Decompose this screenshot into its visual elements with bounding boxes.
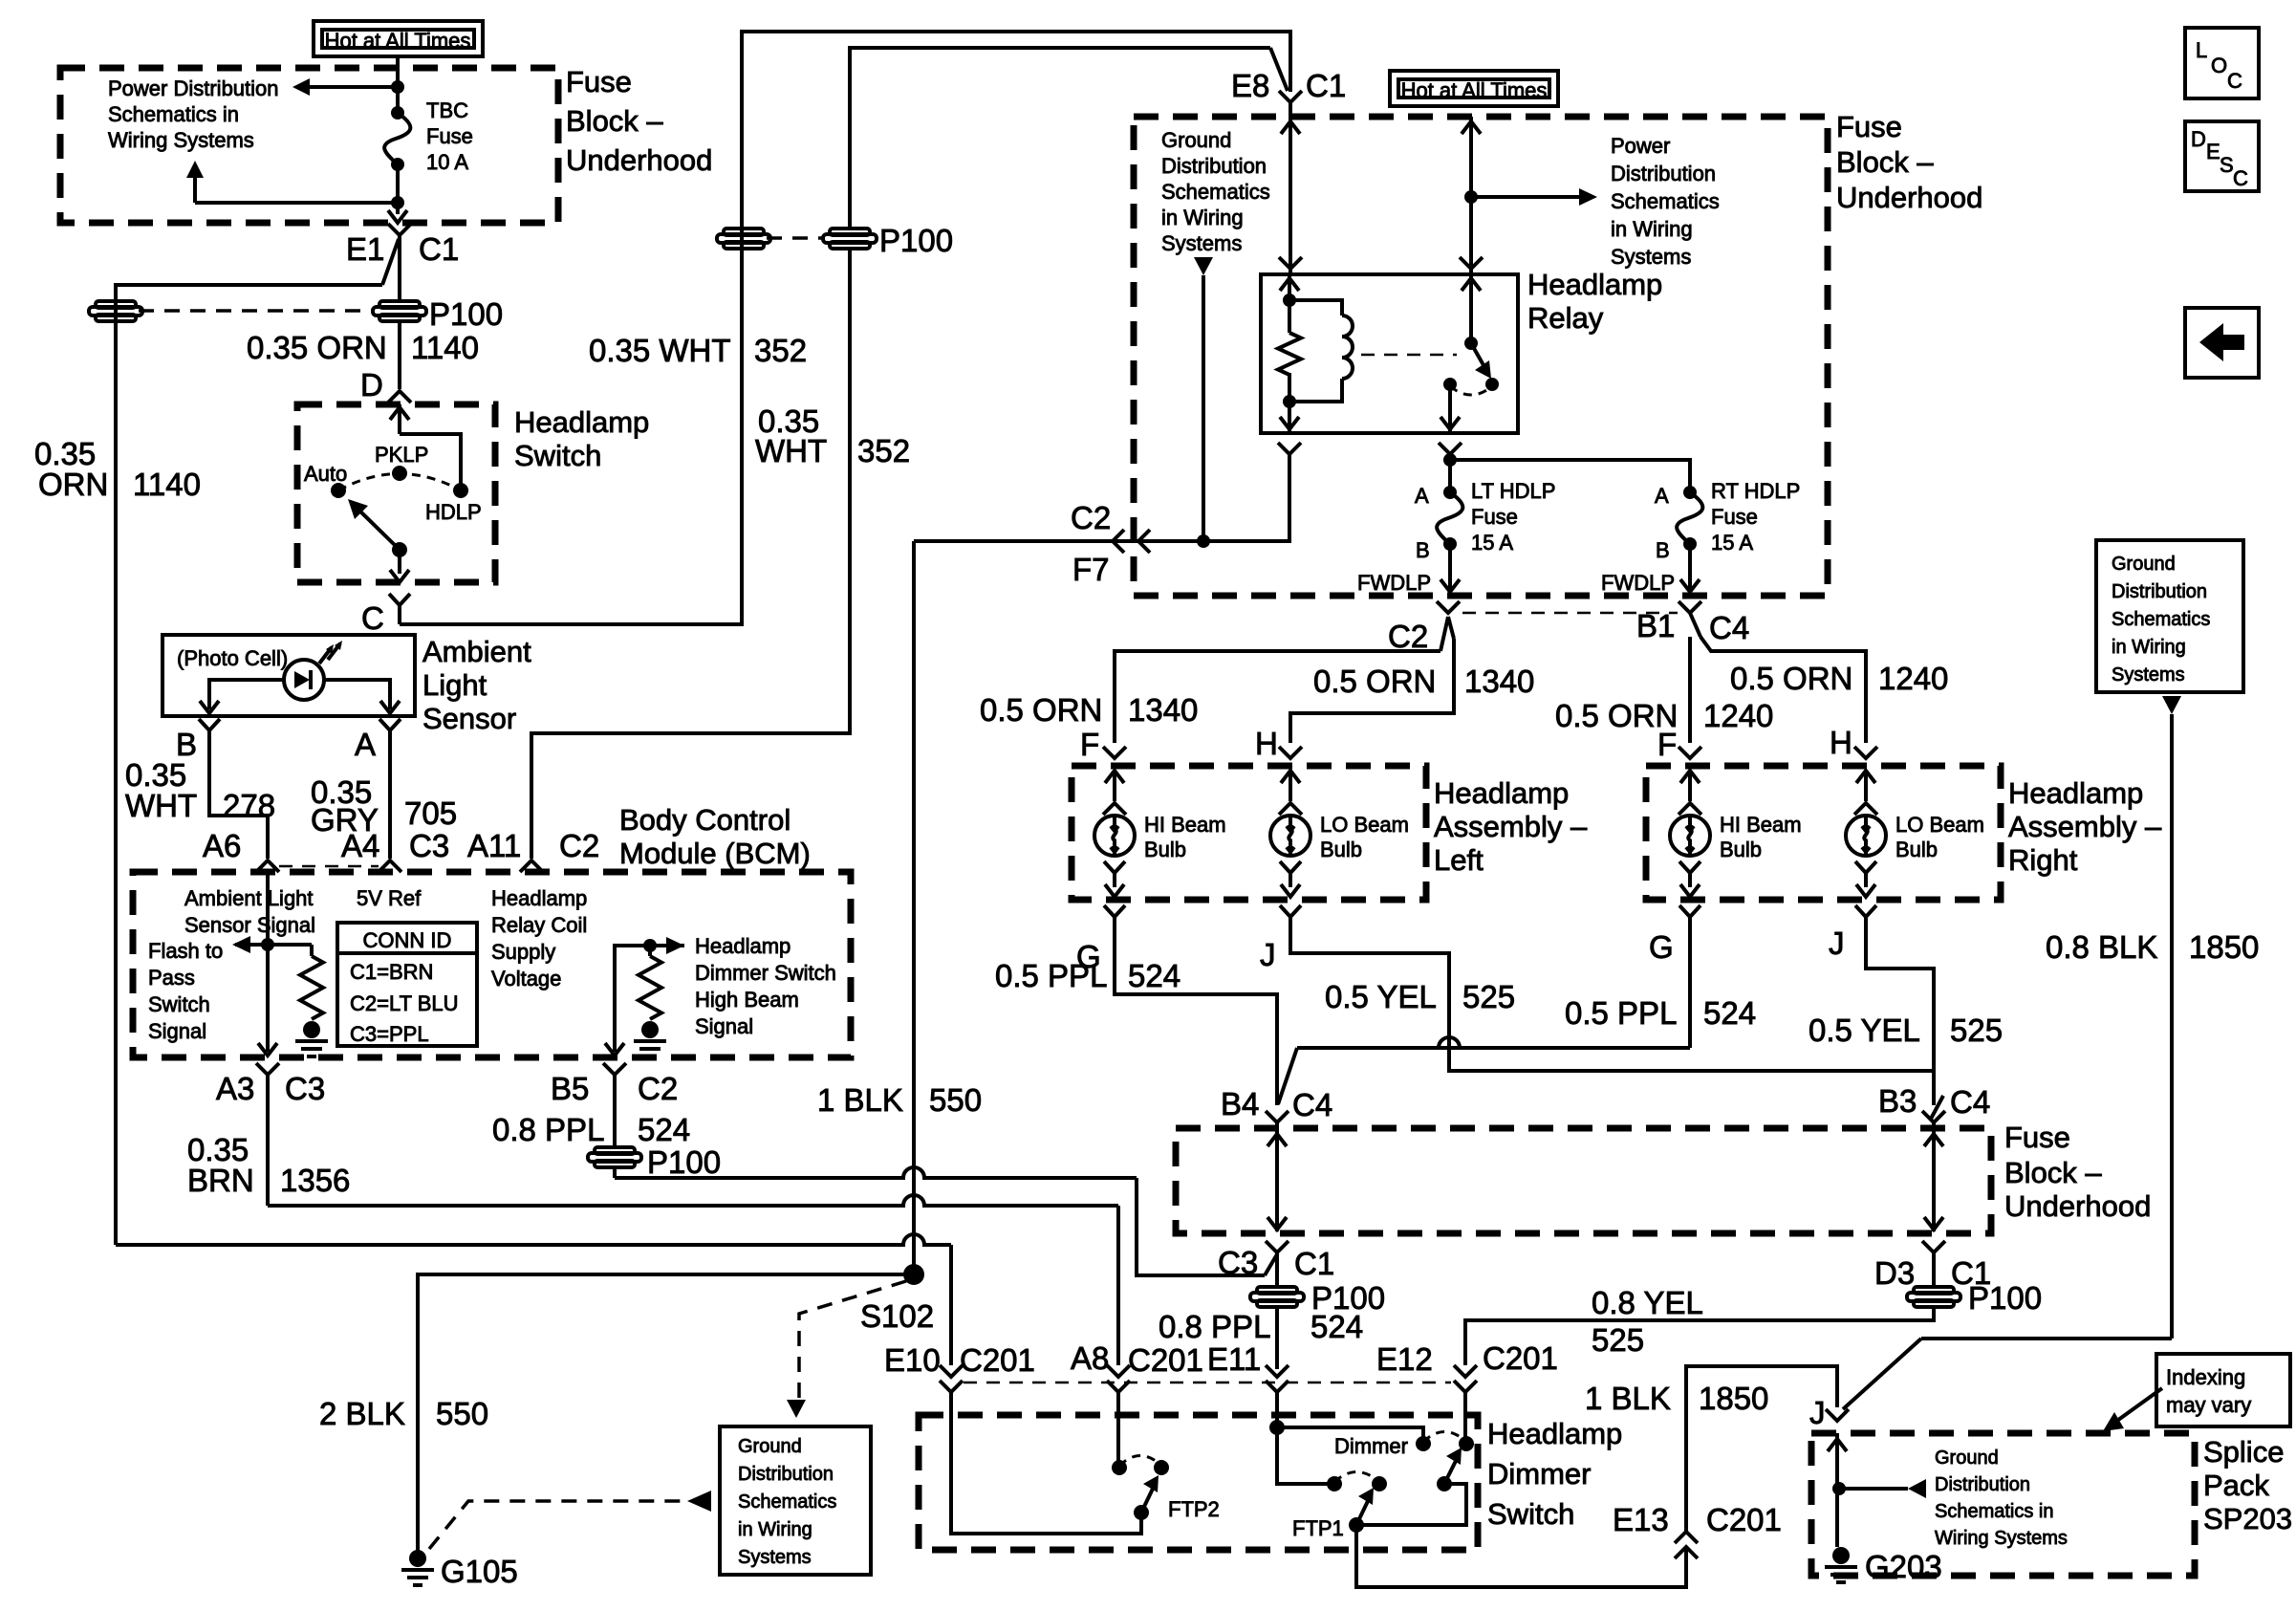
svg-text:C201: C201 <box>1483 1340 1558 1376</box>
label: Hot at All Times box 2 <box>1390 71 1558 106</box>
bulb pin bottom <box>1855 861 1876 887</box>
connector D3/C1 <box>1922 1241 1945 1252</box>
junction <box>1832 1482 1846 1495</box>
wire <box>1202 275 1205 541</box>
svg-text:Distribution: Distribution <box>738 1464 834 1485</box>
FTP1 arm <box>1349 1517 1364 1533</box>
svg-text:524: 524 <box>1703 995 1756 1031</box>
svg-text:C2: C2 <box>1071 500 1111 535</box>
pin <box>1469 274 1473 343</box>
svg-text:P100: P100 <box>879 223 953 258</box>
node: feed junction <box>1464 190 1478 204</box>
fuse block underhood (lower) dashed box <box>1176 1128 1991 1233</box>
svg-text:Bulb: Bulb <box>1144 838 1186 861</box>
svg-text:Distribution: Distribution <box>1935 1474 2030 1495</box>
wire 2BLK550 <box>418 1274 914 1551</box>
svg-text:in Wiring: in Wiring <box>1161 206 1244 229</box>
svg-text:1 BLK: 1 BLK <box>817 1082 903 1118</box>
wire <box>613 1168 617 1178</box>
connector E13/C201 <box>1675 1532 1698 1543</box>
ground G105 <box>409 1550 426 1567</box>
svg-text:Distribution: Distribution <box>1611 162 1716 185</box>
svg-text:BRN: BRN <box>187 1163 254 1198</box>
pin <box>398 404 401 434</box>
wire <box>1277 1427 1334 1484</box>
wire <box>1448 454 1452 492</box>
LO Beam Bulb <box>1846 816 1886 856</box>
wire BRN 1356 horizontal <box>268 1195 1118 1206</box>
svg-text:705: 705 <box>404 795 457 831</box>
photon arrows <box>319 643 340 664</box>
svg-text:0.5 ORN: 0.5 ORN <box>1313 664 1436 699</box>
wire <box>951 1392 1141 1534</box>
svg-text:Sensor Signal: Sensor Signal <box>184 913 315 937</box>
svg-text:Fuse: Fuse <box>1711 505 1758 529</box>
svg-text:10 A: 10 A <box>426 150 468 174</box>
connector C201 chevrons <box>1266 1365 1289 1377</box>
svg-text:352: 352 <box>857 433 910 468</box>
svg-text:C4: C4 <box>1709 610 1749 645</box>
wire <box>266 945 270 1052</box>
svg-text:525: 525 <box>1592 1322 1644 1358</box>
bulb pin LO beam top <box>1279 747 1302 758</box>
connector B1/C4 <box>1679 601 1701 613</box>
svg-text:E8: E8 <box>1231 68 1269 103</box>
splice pack dashed box <box>1811 1433 2195 1576</box>
dashed reference from G105 to note box <box>429 1501 684 1549</box>
svg-text:FWDLP: FWDLP <box>1601 571 1675 595</box>
svg-text:0.5 ORN: 0.5 ORN <box>1730 661 1852 696</box>
svg-text:Bulb: Bulb <box>1320 838 1362 861</box>
connector C3/C1 <box>1266 1241 1289 1252</box>
headlamp relay box <box>1261 274 1518 433</box>
svg-text:in Wiring: in Wiring <box>738 1519 812 1540</box>
svg-text:0.35 WHT: 0.35 WHT <box>589 333 731 368</box>
switch travel dashed arc <box>338 474 461 491</box>
svg-text:B1: B1 <box>1636 608 1675 643</box>
svg-text:Dimmer: Dimmer <box>1487 1457 1592 1491</box>
svg-text:Fuse: Fuse <box>1836 110 1902 143</box>
svg-text:Light: Light <box>422 668 487 702</box>
svg-text:Schematics: Schematics <box>738 1491 836 1513</box>
svg-text:C: C <box>2233 166 2248 190</box>
connector E1/C1 <box>388 224 411 235</box>
contact PKLP <box>392 466 407 481</box>
svg-text:J: J <box>1260 937 1276 972</box>
connector C2 (left headlamp feed) <box>1437 601 1460 613</box>
wire feed <box>396 56 400 113</box>
wire ORN down to E10 <box>949 1245 953 1365</box>
relay contact (NC side) <box>1485 378 1499 391</box>
connector C <box>389 594 410 624</box>
svg-text:Fuse: Fuse <box>426 124 473 148</box>
svg-text:C3: C3 <box>409 828 449 863</box>
svg-text:Right: Right <box>2008 843 2078 877</box>
svg-text:B: B <box>1416 538 1430 562</box>
svg-text:1340: 1340 <box>1128 692 1198 728</box>
reference triangle at note box <box>687 1491 711 1512</box>
DESC box <box>2185 121 2259 191</box>
switch common pivot <box>392 542 407 557</box>
svg-text:Splice: Splice <box>2203 1435 2284 1469</box>
svg-text:C3=PPL: C3=PPL <box>350 1022 429 1046</box>
svg-text:SP203: SP203 <box>2203 1502 2292 1535</box>
svg-text:Headlamp: Headlamp <box>491 886 587 910</box>
svg-text:Systems: Systems <box>2112 664 2185 686</box>
ground distribution note box (bottom middle-left) <box>720 1426 871 1575</box>
svg-text:C2: C2 <box>1388 619 1428 654</box>
svg-text:15 A: 15 A <box>1471 531 1513 555</box>
svg-text:LO Beam: LO Beam <box>1320 813 1409 837</box>
svg-text:H: H <box>1255 726 1278 761</box>
bulb pin bottom <box>1280 861 1301 887</box>
E11 junction <box>1269 1420 1285 1435</box>
svg-text:Distribution: Distribution <box>1161 154 1267 178</box>
svg-text:D3: D3 <box>1874 1255 1915 1291</box>
svg-text:1140: 1140 <box>411 330 479 365</box>
wire 0.5 ORN 1340 to left HI beam (F) <box>1440 617 1448 651</box>
thin dashed connector line C201 <box>964 1382 1451 1384</box>
svg-text:RT HDLP: RT HDLP <box>1711 479 1800 503</box>
headlamp switch dashed box <box>297 404 495 582</box>
fuse TBC 10A <box>391 106 404 120</box>
fuse RT HDLP 15A <box>1683 486 1697 499</box>
pin <box>1288 274 1291 300</box>
fuse block underhood (top right) dashed box <box>1134 117 1828 596</box>
dashed link <box>767 236 823 240</box>
svg-text:H: H <box>1830 725 1852 760</box>
relay coil ground return to F7/C2 <box>1278 443 1301 454</box>
bulb pin bottom <box>1679 861 1700 887</box>
stub <box>310 945 314 956</box>
pin <box>1113 771 1116 801</box>
pin <box>1289 771 1292 801</box>
svg-text:F: F <box>1080 727 1099 762</box>
svg-text:D: D <box>360 367 383 403</box>
svg-text:278: 278 <box>223 788 275 823</box>
svg-text:Schematics in: Schematics in <box>108 102 239 126</box>
dashed link between P100 grommets <box>139 309 375 313</box>
wire coil gnd <box>914 454 1289 541</box>
svg-text:P100: P100 <box>1968 1280 2042 1316</box>
svg-text:PKLP: PKLP <box>375 443 428 467</box>
junction <box>261 938 274 951</box>
wire ORN 1140 horizontal <box>116 1234 951 1245</box>
wire to power distribution arrow <box>309 85 398 89</box>
svg-text:C4: C4 <box>1950 1084 1990 1120</box>
wire WHT 352 b <box>531 250 850 859</box>
connector A4/C3 <box>379 860 401 872</box>
Indexing may vary box <box>2156 1354 2290 1426</box>
svg-text:Systems: Systems <box>738 1547 812 1568</box>
arrow line <box>235 943 312 947</box>
svg-text:Wiring Systems: Wiring Systems <box>108 128 254 152</box>
svg-text:0.5 ORN: 0.5 ORN <box>980 692 1102 728</box>
bulb pin LO beam top <box>1854 747 1877 758</box>
wire to up arrow <box>195 201 398 205</box>
svg-text:FTP2: FTP2 <box>1168 1497 1220 1521</box>
svg-text:C4: C4 <box>1292 1087 1332 1122</box>
svg-text:C3: C3 <box>285 1071 325 1106</box>
coil top <box>1289 300 1342 316</box>
P100 grommet (left) <box>96 301 136 308</box>
reference arrow up <box>186 161 204 178</box>
wire PPL 524 horizontal <box>615 1167 1137 1178</box>
thin dashed connector line A6-A4 <box>279 865 379 868</box>
svg-text:A6: A6 <box>203 828 241 863</box>
svg-text:1 BLK: 1 BLK <box>1585 1381 1671 1416</box>
svg-text:C2: C2 <box>559 828 599 863</box>
svg-text:P100: P100 <box>429 296 503 332</box>
svg-text:Ambient: Ambient <box>422 635 531 668</box>
svg-text:0.35 ORN: 0.35 ORN <box>247 330 387 365</box>
svg-text:Systems: Systems <box>1161 231 1242 255</box>
svg-text:Ambient Light: Ambient Light <box>184 886 314 910</box>
svg-text:550: 550 <box>436 1396 488 1431</box>
svg-text:Sensor: Sensor <box>422 702 516 735</box>
svg-text:S: S <box>2220 153 2234 177</box>
svg-text:Headlamp: Headlamp <box>514 405 649 439</box>
svg-text:S102: S102 <box>860 1298 934 1334</box>
svg-text:High Beam: High Beam <box>695 988 799 1012</box>
svg-text:1240: 1240 <box>1878 661 1948 696</box>
wire <box>1686 1366 1837 1532</box>
wire <box>1688 544 1692 594</box>
svg-text:C: C <box>2227 69 2242 93</box>
relay switch arm <box>1471 343 1484 365</box>
HI Beam Bulb <box>1094 816 1135 856</box>
svg-text:Bulb: Bulb <box>1720 838 1762 861</box>
svg-text:Signal: Signal <box>695 1014 753 1038</box>
P100 grommet (YEL 525 lower) <box>1914 1287 1954 1294</box>
wire <box>1866 932 1934 1105</box>
wire <box>1932 1252 1936 1285</box>
svg-text:1850: 1850 <box>2189 929 2259 965</box>
wire <box>1275 1392 1279 1427</box>
svg-text:B3: B3 <box>1878 1083 1917 1119</box>
bulb pin HI beam top <box>1103 747 1126 758</box>
svg-text:C2: C2 <box>638 1071 678 1106</box>
internal pull resistor right <box>639 956 661 1019</box>
svg-text:E10: E10 <box>884 1342 941 1378</box>
svg-text:D: D <box>2191 127 2206 151</box>
svg-text:C201: C201 <box>960 1342 1035 1378</box>
svg-text:LO Beam: LO Beam <box>1895 813 1984 837</box>
svg-text:524: 524 <box>1310 1309 1363 1344</box>
wire <box>1356 1484 1466 1525</box>
wire 0.5 ORN 1340 to left LO beam (H) <box>1448 617 1454 639</box>
svg-text:525: 525 <box>1462 979 1515 1014</box>
wire 0.35 ORN 1140 left branch <box>116 285 382 1245</box>
FTP2 arm <box>1134 1505 1149 1520</box>
svg-text:B: B <box>1656 538 1670 562</box>
wire BRN down to A8 <box>1116 1206 1120 1365</box>
label: Hot at All Times box 1 <box>314 21 483 56</box>
svg-text:Relay: Relay <box>1527 301 1604 335</box>
svg-text:Dimmer: Dimmer <box>1334 1434 1408 1458</box>
connector C201 chevrons <box>1107 1365 1130 1377</box>
svg-text:B5: B5 <box>551 1071 589 1106</box>
back arrow box <box>2185 308 2259 378</box>
svg-text:C3: C3 <box>1218 1245 1258 1280</box>
LO Beam Bulb <box>1270 816 1310 856</box>
r2 <box>1288 373 1291 402</box>
fuse LT HDLP 15A <box>1443 486 1457 499</box>
svg-text:Fuse: Fuse <box>1471 505 1518 529</box>
svg-text:Systems: Systems <box>1611 245 1691 269</box>
P100 grommet (PPL 524 lower) <box>1257 1287 1297 1294</box>
svg-text:B4: B4 <box>1221 1086 1259 1121</box>
svg-text:Headlamp: Headlamp <box>1527 268 1662 301</box>
svg-text:0.8 BLK: 0.8 BLK <box>2046 929 2157 965</box>
r1 <box>1288 300 1291 333</box>
svg-text:0.5 YEL: 0.5 YEL <box>1809 1012 1920 1048</box>
wire <box>1290 932 1934 1071</box>
svg-text:0.8 PPL: 0.8 PPL <box>1159 1309 1270 1344</box>
svg-text:C2=LT BLU: C2=LT BLU <box>350 991 459 1015</box>
svg-text:15 A: 15 A <box>1711 531 1753 555</box>
svg-text:A: A <box>1415 484 1429 508</box>
svg-text:Ground: Ground <box>1935 1448 1999 1469</box>
thin dashed connector line C2-B1 <box>1462 612 1678 615</box>
svg-text:HDLP: HDLP <box>425 500 482 524</box>
svg-text:Flash to: Flash to <box>148 939 223 963</box>
fuse block underhood (top-left) dashed box <box>60 68 558 223</box>
svg-text:E12: E12 <box>1376 1341 1433 1377</box>
wire <box>1116 1392 1120 1461</box>
svg-text:E1: E1 <box>346 231 384 267</box>
wire <box>1463 1392 1467 1437</box>
svg-text:Schematics in: Schematics in <box>1935 1501 2054 1522</box>
wire <box>1448 544 1452 594</box>
svg-text:Headlamp: Headlamp <box>695 934 791 958</box>
svg-text:Switch: Switch <box>1487 1497 1574 1531</box>
svg-text:Underhood: Underhood <box>1836 181 1982 214</box>
svg-text:(Photo Cell): (Photo Cell) <box>177 646 288 670</box>
wire <box>1921 1337 2172 1340</box>
svg-text:ORN: ORN <box>38 467 108 502</box>
svg-text:Headlamp: Headlamp <box>1487 1417 1622 1450</box>
P100 grommet (ORN 1140) <box>379 301 420 308</box>
CONN ID table <box>337 923 477 1046</box>
wire to HDLP contact <box>400 434 461 484</box>
wire <box>1275 1252 1279 1285</box>
wire PPL to C3/C1 <box>1137 1178 1265 1275</box>
svg-text:Assembly –: Assembly – <box>1434 810 1588 843</box>
svg-text:Headlamp: Headlamp <box>1434 776 1569 810</box>
svg-text:550: 550 <box>929 1082 982 1118</box>
svg-text:F: F <box>1657 727 1677 762</box>
svg-text:0.5 YEL: 0.5 YEL <box>1325 979 1437 1014</box>
wire <box>1297 1037 1690 1048</box>
svg-text:C201: C201 <box>1706 1502 1782 1537</box>
wire 1850 <box>2170 714 2174 1339</box>
ground distribution note box (right) <box>2096 540 2243 692</box>
connector C201 chevrons <box>1454 1365 1477 1377</box>
svg-text:in Wiring: in Wiring <box>2112 637 2186 658</box>
wire BRN <box>266 1086 270 1206</box>
svg-text:Ground: Ground <box>1161 128 1231 152</box>
connector slash + branch to left ORN wire <box>382 239 399 285</box>
svg-text:G: G <box>1649 929 1674 965</box>
svg-text:Signal: Signal <box>148 1019 206 1043</box>
junction right <box>643 939 657 952</box>
FTP2 contacts <box>1112 1460 1127 1475</box>
svg-text:Auto: Auto <box>304 462 347 486</box>
svg-text:524: 524 <box>1128 958 1180 993</box>
svg-text:FWDLP: FWDLP <box>1357 571 1431 595</box>
wire 1BLK550 <box>912 541 916 1268</box>
stub <box>648 946 652 956</box>
svg-text:5V Ref: 5V Ref <box>357 886 422 910</box>
svg-text:Voltage: Voltage <box>491 967 561 991</box>
svg-text:Wiring Systems: Wiring Systems <box>1935 1528 2068 1549</box>
P100 grommet twin <box>724 229 764 235</box>
svg-text:Module (BCM): Module (BCM) <box>619 837 811 870</box>
wire <box>1688 932 1692 1048</box>
svg-text:1240: 1240 <box>1703 698 1773 733</box>
relay output to fuses <box>1439 443 1462 454</box>
wire <box>1700 637 1866 743</box>
svg-text:Assembly –: Assembly – <box>2008 810 2162 843</box>
wire <box>1289 102 1292 274</box>
switch arm with arrowhead (points to Auto) <box>357 509 400 550</box>
svg-text:E13: E13 <box>1613 1502 1669 1537</box>
dimmer arm <box>1437 1476 1452 1491</box>
svg-text:C201: C201 <box>1128 1342 1203 1378</box>
wire <box>1688 637 1692 743</box>
svg-text:may vary: may vary <box>2166 1393 2251 1417</box>
svg-text:Supply: Supply <box>491 940 555 964</box>
body control module dashed box <box>133 872 851 1057</box>
svg-text:Ground: Ground <box>738 1436 802 1457</box>
connector A6 <box>256 860 279 872</box>
wire <box>398 235 401 301</box>
svg-text:J: J <box>1829 925 1845 961</box>
svg-text:1850: 1850 <box>1699 1381 1768 1416</box>
svg-text:Ground: Ground <box>2112 554 2176 575</box>
relay contact (output) <box>1443 378 1457 391</box>
dashed reference from S102 down-left <box>799 1281 906 1398</box>
wire <box>1356 1525 1686 1587</box>
ground symbol internal right <box>641 1021 659 1038</box>
svg-text:Hot at All Times: Hot at All Times <box>1401 78 1548 102</box>
svg-text:FTP1: FTP1 <box>1292 1516 1344 1540</box>
svg-text:Switch: Switch <box>148 992 210 1016</box>
fuse out <box>396 164 400 203</box>
connector C2/F7 chevrons <box>1113 530 1124 553</box>
svg-text:G203: G203 <box>1865 1549 1942 1584</box>
reference triangle (points down to note box) <box>787 1400 806 1418</box>
svg-text:A: A <box>1655 484 1669 508</box>
pin <box>1688 771 1692 801</box>
svg-text:Headlamp: Headlamp <box>2008 776 2143 810</box>
svg-text:HI Beam: HI Beam <box>1144 813 1226 837</box>
back arrow icon <box>2199 323 2244 361</box>
P100 grommet (PPL 524) <box>595 1147 635 1154</box>
svg-text:O: O <box>2211 54 2227 77</box>
svg-text:C1: C1 <box>1306 68 1346 103</box>
stub <box>193 178 197 203</box>
pivot down <box>398 550 401 574</box>
contact HDLP <box>453 483 468 498</box>
relay actuation dashed link <box>1361 354 1457 357</box>
diagonal into C3/C1 <box>1265 1254 1277 1275</box>
P100 grommet (WHT 352) <box>830 229 870 235</box>
svg-text:1140: 1140 <box>133 467 201 502</box>
svg-text:0.8 YEL: 0.8 YEL <box>1592 1285 1703 1320</box>
wire PPL <box>613 1086 617 1145</box>
